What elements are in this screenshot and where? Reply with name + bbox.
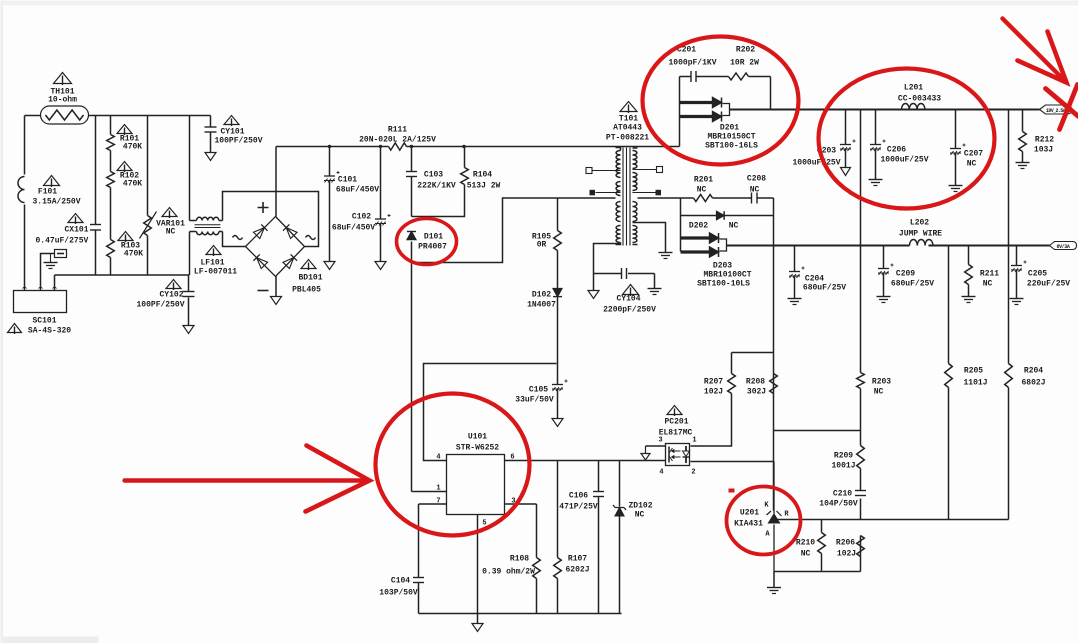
ground arrow C105: [552, 419, 563, 427]
svg-text:NC: NC: [166, 228, 176, 237]
capacitor C105: [552, 384, 563, 386]
warning triangle SC101: [8, 324, 22, 333]
capacitor C207: [950, 148, 961, 150]
wire C207 branch: [955, 110, 957, 186]
svg-text:NC: NC: [750, 186, 760, 195]
svg-text:D203: D203: [713, 262, 732, 271]
ground R212: [1016, 162, 1030, 164]
label R107: [565, 555, 589, 575]
label R201: [694, 176, 713, 195]
ground arrow C203: [841, 168, 851, 176]
svg-text:33uF/50V: 33uF/50V: [515, 396, 554, 405]
svg-text:STR-W6252: STR-W6252: [456, 444, 499, 453]
ground arrow C102: [375, 262, 386, 270]
svg-text:C204: C204: [805, 275, 824, 284]
resistor R103: [107, 240, 115, 258]
svg-text:C104: C104: [391, 577, 410, 586]
wire U101 pin4 net: [424, 364, 557, 461]
label C201: [668, 46, 716, 68]
label C101: [336, 176, 379, 195]
wire bridge plus to DC rail: [275, 147, 277, 217]
node red circle D201: [643, 37, 799, 165]
label R203: [872, 378, 891, 397]
svg-text:1101J: 1101J: [963, 379, 987, 388]
label C205: [1027, 270, 1070, 289]
svg-text:3: 3: [658, 437, 662, 445]
resistor R202: [729, 73, 749, 80]
label R208: [746, 378, 766, 397]
junction dots: [328, 145, 466, 148]
svg-text:R209: R209: [834, 452, 853, 461]
ground C209: [877, 296, 891, 298]
svg-text:C102: C102: [352, 213, 371, 222]
wire LF101 to bridge AC2: [223, 232, 246, 247]
svg-text:NC: NC: [635, 511, 645, 520]
svg-text:R210: R210: [796, 539, 815, 548]
svg-text:2: 2: [691, 469, 695, 477]
svg-text:R212: R212: [1035, 136, 1054, 145]
svg-text:0R: 0R: [537, 241, 547, 250]
label R202: [730, 46, 759, 68]
wire C209 branch: [883, 246, 885, 297]
label R103: [121, 242, 143, 259]
ground C207: [949, 185, 963, 187]
svg-text:C210: C210: [833, 490, 852, 499]
node bottom-left-shade: [1, 637, 99, 643]
capacitor CY104: [621, 268, 623, 279]
resistor R105: [554, 231, 562, 251]
label BD101 AC1 tilde: [233, 236, 243, 240]
svg-text:R205: R205: [964, 367, 983, 376]
svg-text:L202: L202: [910, 219, 929, 228]
label R206: [836, 539, 856, 559]
capacitor CX101: [90, 224, 101, 226]
wire R205 sense drop: [948, 246, 950, 520]
shunt regulator U201 KIA431: [767, 462, 782, 572]
capacitor CY102: [183, 291, 195, 293]
wire U101 pin3 to R108: [505, 504, 537, 614]
svg-text:PR4007: PR4007: [418, 243, 447, 252]
capacitor C103: [406, 171, 417, 173]
svg-text:302J: 302J: [747, 388, 766, 397]
label BD101 AC2 tilde: [306, 236, 316, 240]
svg-text:C103: C103: [424, 171, 443, 180]
label R102: [120, 172, 142, 189]
label R101: [120, 135, 142, 152]
warning triangle BD101: [301, 260, 316, 269]
inductor L202: [910, 240, 933, 246]
svg-text:SBT100-16LS: SBT100-16LS: [705, 142, 758, 151]
wire R104 column: [412, 147, 465, 217]
label D203: [697, 262, 752, 289]
wire left AC drop: [24, 116, 26, 291]
label C103: [417, 171, 456, 191]
resistor R108: [533, 558, 541, 579]
node red circle U201: [727, 487, 801, 555]
svg-text:PT-008221: PT-008221: [606, 134, 649, 143]
label R108: [482, 555, 535, 577]
capacitor C101: [324, 175, 335, 177]
ground arrow BD101: [271, 297, 282, 305]
wire R208 to R209 link: [774, 430, 861, 432]
label C105: [515, 386, 554, 405]
svg-text:100PF/250V: 100PF/250V: [136, 301, 184, 310]
warning triangle T101: [620, 102, 637, 112]
svg-text:6202J: 6202J: [565, 566, 589, 575]
wire LF101 to bridge AC1: [223, 192, 319, 247]
svg-text:LF-007011: LF-007011: [194, 268, 237, 277]
capacitor C201: [690, 71, 692, 82]
svg-text:4: 4: [659, 469, 663, 477]
svg-text:CX101: CX101: [64, 226, 88, 235]
svg-text:PBL405: PBL405: [292, 286, 321, 295]
wire R101-R103 chain: [110, 116, 112, 275]
svg-text:NC: NC: [983, 280, 993, 289]
capacitor C210: [855, 490, 866, 492]
svg-text:R204: R204: [1024, 367, 1043, 376]
fuse F101: [18, 177, 24, 203]
svg-text:470K: 470K: [124, 250, 143, 259]
svg-text:103J: 103J: [1034, 146, 1053, 155]
svg-text:102J: 102J: [837, 550, 856, 559]
wire reference line: [778, 519, 1009, 521]
svg-text:CY104: CY104: [616, 295, 640, 304]
svg-text:R107: R107: [568, 555, 587, 564]
wire C103-D101 column: [411, 147, 413, 492]
label C208: [747, 175, 766, 195]
wire SC101 pin2 to line-filter tap: [41, 254, 55, 291]
svg-text:68uF/450V: 68uF/450V: [332, 224, 375, 233]
diode D101: [407, 232, 416, 240]
svg-text:470K: 470K: [123, 143, 142, 152]
label R207: [704, 378, 723, 397]
label L202: [899, 219, 942, 239]
svg-text:19V_2.5A: 19V_2.5A: [1046, 108, 1066, 114]
svg-text:2200pF/250V: 2200pF/250V: [603, 306, 656, 315]
svg-text:MBR10100CT: MBR10100CT: [703, 271, 751, 280]
wire anode return: [774, 572, 861, 588]
wire aux winding tap: [633, 223, 666, 253]
label D202: [689, 222, 739, 231]
label CY102: [136, 291, 184, 310]
wire D202 branch: [681, 198, 774, 252]
label R104: [467, 171, 501, 191]
wire CX101 branch: [95, 116, 97, 276]
label PC201: [659, 418, 693, 438]
label ZD102: [628, 502, 652, 520]
svg-text:C209: C209: [896, 270, 915, 279]
svg-text:1000pF/1KV: 1000pF/1KV: [668, 59, 716, 68]
wire 19V output rail: [730, 109, 1040, 111]
diode D202: [717, 211, 725, 220]
svg-text:T101: T101: [619, 115, 638, 124]
label CY101: [214, 128, 262, 146]
svg-text:AT0443: AT0443: [613, 124, 642, 133]
label CY104: [603, 295, 656, 315]
label D102: [527, 291, 556, 310]
svg-text:1N4007: 1N4007: [527, 301, 556, 310]
svg-text:LF101: LF101: [200, 259, 224, 268]
resistor R211: [965, 265, 973, 285]
svg-text:U101: U101: [468, 433, 487, 442]
svg-text:C101: C101: [338, 176, 357, 185]
svg-text:10R 2W: 10R 2W: [730, 59, 759, 68]
diode D201 MBR10150CT: [713, 98, 730, 122]
wire R204 sense drop: [1008, 110, 1010, 520]
label R204: [1021, 367, 1045, 388]
svg-text:JUMP WIRE: JUMP WIRE: [899, 230, 942, 239]
resistor R210: [818, 533, 826, 554]
resistor R101: [107, 135, 115, 151]
svg-text:CC-003433: CC-003433: [898, 95, 941, 104]
wire bridge minus stem: [275, 277, 277, 297]
connector chassis-link: [55, 250, 67, 258]
resistor R102: [107, 172, 115, 188]
svg-text:1000uF/25V: 1000uF/25V: [792, 159, 840, 168]
svg-text:U201: U201: [740, 509, 759, 518]
wire U101 pin1: [412, 491, 447, 493]
warning triangle CY104: [623, 285, 639, 295]
svg-text:PC201: PC201: [664, 418, 688, 427]
svg-text:103P/50V: 103P/50V: [379, 589, 418, 598]
label C207: [964, 150, 983, 169]
node red circle L201: [819, 69, 995, 209]
wire primary return: [412, 198, 616, 263]
thermistor TH101: [41, 106, 89, 124]
svg-text:222K/1KV: 222K/1KV: [417, 182, 456, 191]
svg-text:20N-020L 2A/125V: 20N-020L 2A/125V: [359, 136, 436, 145]
svg-text:C207: C207: [964, 150, 983, 159]
svg-text:6802J: 6802J: [1021, 379, 1045, 388]
varistor VAR101: [140, 212, 157, 239]
wire R201 tap: [638, 198, 774, 511]
capacitor C106: [593, 491, 604, 493]
wire R206 branch: [860, 571, 862, 573]
op-amp U101 STR-W6252: [447, 455, 505, 515]
svg-text:L201: L201: [904, 84, 923, 93]
warning triangle CX101: [68, 214, 83, 223]
ground arrow CY104 left: [588, 291, 599, 299]
label C203: [792, 147, 840, 168]
label C102: [332, 213, 375, 233]
label C210: [819, 490, 858, 509]
ground C206: [869, 179, 883, 181]
ground U201: [767, 587, 781, 589]
wire C205 branch: [1016, 246, 1018, 299]
svg-text:ZD102: ZD102: [628, 502, 652, 511]
svg-text:R104: R104: [473, 171, 492, 180]
wire CY104 branch: [594, 244, 655, 291]
svg-text:470K: 470K: [123, 180, 142, 189]
ground arrow CY102: [183, 326, 194, 334]
pin pad T101-b: [590, 190, 621, 196]
node red dot: [729, 489, 735, 493]
svg-text:BD101: BD101: [298, 274, 322, 283]
svg-text:MBR10150CT: MBR10150CT: [707, 133, 755, 142]
resistor R209: [857, 446, 865, 469]
label U101: [456, 433, 499, 453]
wire PC201 pin3 stub: [646, 445, 666, 447]
svg-text:D102: D102: [532, 291, 551, 300]
resistor R207: [728, 374, 736, 394]
svg-text:NC: NC: [874, 388, 884, 397]
warning triangle F101: [44, 176, 60, 186]
ground arrow C101: [324, 262, 335, 270]
node 8V output tag: [1050, 242, 1077, 250]
wire 8V output rail: [727, 245, 1050, 247]
wire CY102 branch: [188, 275, 190, 326]
svg-text:680uF/25V: 680uF/25V: [891, 280, 934, 289]
node red circle D101: [397, 219, 457, 265]
svg-text:CY102: CY102: [159, 291, 183, 300]
ground arrow CY101: [205, 153, 216, 161]
svg-text:C208: C208: [747, 175, 766, 184]
svg-text:220uF/25V: 220uF/25V: [1027, 280, 1070, 289]
label R209: [831, 452, 855, 471]
svg-text:10-ohm: 10-ohm: [48, 96, 77, 105]
svg-text:100PF/250V: 100PF/250V: [214, 137, 262, 146]
zener ZD102: [613, 505, 626, 516]
wire R107 branch: [557, 461, 559, 614]
warning triangle CY102: [166, 280, 181, 289]
label D201: [705, 124, 758, 151]
svg-text:SC101: SC101: [32, 317, 56, 326]
svg-text:R202: R202: [736, 46, 755, 55]
capacitor C208: [751, 193, 753, 204]
ground CY104: [648, 288, 662, 290]
wire SC101 pin3 to rail: [54, 275, 56, 291]
label C206: [880, 146, 928, 165]
wire bottom AC rail: [55, 274, 190, 276]
wire R207 R208 top bar: [732, 353, 774, 374]
warning triangle R103: [118, 232, 133, 241]
svg-text:3.15A/250V: 3.15A/250V: [32, 198, 80, 207]
label D101: [418, 233, 447, 252]
ground T101 secondary: [659, 252, 673, 254]
label R205: [963, 367, 987, 388]
svg-text:F101: F101: [38, 188, 57, 197]
wire R105-D102-C105 column: [557, 198, 559, 419]
wire R210 branch: [821, 520, 823, 572]
pin pad T101-a: [586, 168, 621, 174]
svg-text:C205: C205: [1028, 270, 1047, 279]
label C204: [803, 275, 846, 293]
ground R211: [962, 296, 976, 298]
capacitor C204: [789, 271, 800, 273]
svg-text:R108: R108: [510, 555, 529, 564]
svg-text:R206: R206: [836, 539, 855, 548]
label R211: [980, 270, 999, 289]
warning triangle R101: [117, 125, 132, 134]
svg-text:KIA431: KIA431: [734, 520, 763, 529]
node top-edge-shade: [1, 1, 1078, 6]
wire VAR101 column: [147, 116, 149, 275]
svg-text:102J: 102J: [704, 388, 723, 397]
label U201: [734, 509, 763, 529]
inductor LF101: [190, 217, 223, 234]
label R212: [1034, 136, 1054, 155]
svg-text:NC: NC: [697, 186, 707, 195]
wire U101 pin6 net: [505, 460, 666, 462]
svg-text:513J 2W: 513J 2W: [467, 182, 501, 191]
svg-text:R111: R111: [388, 126, 407, 135]
svg-text:0.47uF/275V: 0.47uF/275V: [36, 237, 89, 246]
node red arrow top-right: [1003, 19, 1067, 83]
svg-text:68uF/450V: 68uF/450V: [336, 186, 379, 195]
ground C205: [1010, 298, 1024, 300]
svg-text:SA-4S-320: SA-4S-320: [28, 327, 71, 336]
capacitor C209: [878, 268, 889, 270]
svg-text:104P/50V: 104P/50V: [819, 500, 858, 509]
wire DC bus rail: [276, 146, 680, 148]
svg-text:C105: C105: [529, 386, 548, 395]
svg-text:680uF/25V: 680uF/25V: [803, 284, 846, 293]
wire C101 branch: [329, 147, 331, 262]
svg-text:0.39 ohm/2W: 0.39 ohm/2W: [482, 568, 535, 577]
label CX101: [36, 226, 89, 246]
svg-text:R208: R208: [746, 378, 765, 387]
svg-text:R211: R211: [980, 270, 999, 279]
ground arrow U101 pin5: [472, 624, 483, 632]
label C209: [891, 270, 934, 289]
warning triangle LF101: [206, 246, 221, 255]
capacitor C203: [840, 144, 851, 146]
svg-text:1: 1: [692, 437, 696, 445]
svg-text:471P/25V: 471P/25V: [559, 503, 598, 512]
capacitor C205: [1011, 265, 1022, 267]
wire U101 pin5: [477, 515, 479, 624]
label LF101: [194, 259, 237, 277]
label R105: [532, 233, 551, 250]
label C106: [559, 492, 598, 512]
svg-text:1000uF/25V: 1000uF/25V: [880, 156, 928, 165]
wire R211 branch: [968, 246, 970, 297]
svg-text:R201: R201: [694, 176, 713, 185]
svg-text:EL817MC: EL817MC: [659, 429, 693, 438]
warning triangle R102: [117, 162, 132, 171]
label C104: [379, 577, 418, 598]
ground C204: [788, 298, 802, 300]
svg-text:1001J: 1001J: [831, 462, 855, 471]
wire PC201 pin2 net: [691, 461, 774, 463]
pin pad T101-d: [633, 190, 662, 196]
wire D201 anode bus: [679, 77, 681, 147]
svg-text:C206: C206: [887, 146, 906, 155]
svg-text:NC: NC: [801, 550, 811, 559]
label VAR101: [156, 220, 185, 237]
wire CY101 stub: [210, 116, 212, 153]
svg-text:D101: D101: [424, 233, 443, 242]
capacitor C206: [870, 144, 881, 146]
node red arrow left: [125, 446, 370, 512]
label F101: [32, 188, 80, 207]
wire U101 pin7 to C104: [419, 504, 447, 614]
svg-text:5: 5: [482, 520, 486, 528]
transformer T101: [616, 148, 638, 246]
node red X mark: [1046, 85, 1078, 130]
label R210: [796, 539, 815, 559]
wire ZD102 branch: [619, 461, 621, 614]
resistor R203: [857, 373, 865, 389]
bridge rectifier BD101: [246, 217, 305, 277]
wire top AC rail: [25, 115, 211, 117]
wire C203 branch: [845, 110, 847, 168]
wire C204 branch: [794, 246, 796, 299]
resistor R107: [554, 558, 562, 579]
resistor R204: [1005, 364, 1013, 388]
wire snubber top: [680, 77, 771, 110]
svg-text:SBT100-10LS: SBT100-10LS: [697, 280, 750, 289]
